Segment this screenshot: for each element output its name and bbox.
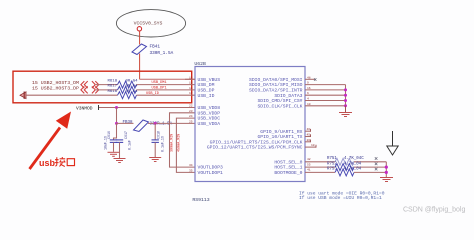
junction C618 tap [154, 122, 157, 125]
capacitor C617 [116, 131, 132, 158]
pin USB_VDDA [189, 120, 220, 127]
svg-text:24: 24 [189, 115, 193, 118]
svg-text:R618: R618 [108, 79, 118, 83]
svg-text:SDIO_CMD/SPI_CS#: SDIO_CMD/SPI_CS# [257, 98, 302, 104]
pin BOOTMODE_0 + wire [274, 169, 335, 176]
svg-text:USB_ID: USB_ID [146, 92, 159, 96]
off-page connector USB_ID left [20, 92, 26, 99]
pin USB_ID [189, 92, 215, 99]
pin SDIO_CLK + wire [257, 103, 345, 110]
wire ID row [26, 94, 118, 96]
wire ID to chip [137, 94, 196, 96]
pin VOUTLDOP1 [189, 169, 223, 176]
svg-text:4: 4 [307, 98, 309, 101]
svg-text:10: 10 [311, 144, 315, 147]
svg-text:SDIO_CLK/SPI_CLK: SDIO_CLK/SPI_CLK [257, 103, 302, 109]
svg-text:330R_1.5A: 330R_1.5A [150, 51, 174, 56]
annotation text usb接口 [39, 157, 75, 168]
resistor R751 [327, 157, 386, 165]
pin VOUTLDOP3 [189, 164, 223, 171]
svg-text:GPIO_9/UART1_RX: GPIO_9/UART1_RX [260, 129, 302, 135]
wire SDIO tie bus [345, 85, 347, 106]
svg-text:4.7K_04: 4.7K_04 [344, 162, 362, 166]
svg-text:If use USB mode =UIU R0=0,R1=1: If use USB mode =UIU R0=0,R1=1 [299, 195, 382, 201]
watermark [403, 207, 465, 214]
wire DM row [96, 84, 118, 86]
pin USB_DM [189, 82, 215, 89]
net label 300mA_MIN rotated [171, 134, 175, 152]
svg-text:35: 35 [189, 169, 193, 172]
ground SDIO [339, 113, 352, 117]
pin GPIO_10/UART1_TX [257, 134, 310, 141]
pin USB_VDDP [189, 110, 220, 117]
svg-text:25: 25 [189, 120, 193, 123]
wire SDIO to ground [345, 106, 347, 112]
pin HOST_SEL_1 + wire [274, 163, 335, 170]
wire FB41 to VBUS row [140, 54, 195, 80]
net label V3NMOD [76, 105, 99, 111]
wire LDO out 1 [176, 118, 195, 172]
svg-text:48: 48 [307, 76, 311, 79]
svg-text:SDIO_DATA0/SPI_MOSI: SDIO_DATA0/SPI_MOSI [249, 77, 303, 83]
svg-text:USB_VDDA: USB_VDDA [198, 121, 221, 127]
junction SDIO 1 [344, 88, 347, 91]
svg-text:10uF_16: 10uF_16 [104, 136, 108, 150]
svg-text:CSDN @flypig_bolg: CSDN @flypig_bolg [403, 207, 465, 214]
pin SDIO_CMD + wire [257, 98, 345, 105]
pin HOST_SEL_0 + wire [274, 158, 335, 165]
wire DP to chip [137, 89, 196, 91]
svg-text:55: 55 [307, 163, 311, 166]
net label USB_ID [146, 92, 159, 96]
junction FB38 row [115, 122, 118, 125]
svg-text:15 USB2_HOST3_DP: 15 USB2_HOST3_DP [32, 86, 79, 92]
svg-text:SDIO_DATA1/SPI_MISO: SDIO_DATA1/SPI_MISO [249, 82, 303, 88]
svg-text:VOUTLDOP1: VOUTLDOP1 [198, 170, 224, 176]
pin SDIO_DATA0 stub [249, 76, 316, 83]
pin USB_VDD8 [189, 105, 220, 112]
junction SDIO 2 [344, 94, 347, 97]
svg-text:USB_VBUS: USB_VBUS [198, 77, 221, 83]
svg-text:16: 16 [189, 76, 193, 79]
svg-text:VCC5V0_SYS: VCC5V0_SYS [134, 21, 163, 27]
svg-text:41: 41 [307, 169, 311, 172]
svg-text:USB_DP: USB_DP [198, 88, 215, 94]
ground C617 [114, 159, 126, 163]
svg-text:V3NMOD: V3NMOD [76, 105, 93, 111]
svg-text:GPIO_11/UART1_RTS/I2S_CLK/PCM_: GPIO_11/UART1_RTS/I2S_CLK/PCM_CLK [210, 139, 303, 145]
svg-text:USB_ID: USB_ID [198, 93, 215, 99]
svg-text:USB_VDDP: USB_VDDP [198, 110, 221, 116]
svg-text:USB_VDD8: USB_VDD8 [198, 105, 221, 111]
wire V3NMOD down to FB38 row [116, 108, 118, 124]
svg-text:SDIO_DATA2/SPI_INTR: SDIO_DATA2/SPI_INTR [249, 88, 303, 94]
svg-text:14: 14 [189, 87, 193, 90]
pin GPIO_11/UART1_RTS [210, 139, 311, 146]
svg-text:450mA_MIN: 450mA_MIN [177, 134, 181, 152]
resistor R616 [108, 90, 139, 99]
ground HOST [380, 178, 393, 182]
pin USB_DP [189, 87, 215, 94]
ground C618 [149, 158, 161, 162]
svg-text:300mA_MIN: 300mA_MIN [171, 134, 175, 152]
annotation red arrow [30, 112, 72, 170]
svg-text:45: 45 [307, 134, 311, 137]
wire V3NMOD to chip [99, 107, 195, 109]
IC U62B body [192, 61, 305, 203]
junction HOST 2 [385, 171, 388, 174]
note text [299, 190, 385, 201]
svg-text:USB_DP1: USB_DP1 [152, 87, 167, 91]
pin SDIO_DATA1 + wire [249, 82, 345, 89]
svg-text:6: 6 [307, 92, 309, 95]
svg-text:RS9113: RS9113 [192, 197, 209, 203]
svg-text:usb: usb [39, 158, 56, 168]
pin SDIO_DATA2 + wire [249, 87, 345, 94]
svg-text:BOOTMODE_0: BOOTMODE_0 [274, 170, 302, 176]
pin SDIO_DATA3 + wire [274, 92, 345, 99]
svg-text:R617: R617 [108, 85, 118, 89]
svg-text:GPIO_10/UART1_TX: GPIO_10/UART1_TX [257, 134, 302, 140]
svg-text:42: 42 [307, 158, 311, 161]
svg-text:R616: R616 [108, 90, 118, 94]
svg-text:C617: C617 [124, 131, 128, 139]
svg-text:23: 23 [189, 110, 193, 113]
resistor R752 [327, 162, 386, 170]
signal USB2_HOST3_DP [32, 86, 99, 94]
ferrite bead FB41 [132, 44, 174, 56]
capacitor C618 [152, 123, 165, 157]
svg-text:0.1uF_16: 0.1uF_16 [160, 136, 164, 152]
pin GPIO_9/UART1_RX [260, 128, 310, 135]
wire HOST tie bus [385, 162, 387, 177]
wire DM to chip [137, 84, 196, 86]
svg-text:46: 46 [307, 128, 311, 131]
svg-text:C616: C616 [107, 131, 111, 139]
net label 450mA_MIN rotated [177, 134, 181, 152]
pin USB_VBUS [185, 76, 220, 83]
svg-text:VOUTLDOP3: VOUTLDOP3 [198, 165, 224, 171]
svg-text:9: 9 [307, 82, 309, 85]
svg-text:4.7K_04C: 4.7K_04C [344, 157, 364, 161]
junction SDIO 3 [344, 99, 347, 102]
svg-text:34: 34 [189, 164, 193, 167]
svg-text:15: 15 [189, 82, 193, 85]
svg-text:16: 16 [307, 87, 311, 90]
wire FB38 row to chip [117, 122, 196, 124]
svg-text:22: 22 [189, 105, 193, 108]
annotation red box [13, 71, 192, 103]
svg-text:USB_VDDC: USB_VDDC [198, 116, 221, 122]
svg-text:4.7K_04: 4.7K_04 [344, 168, 362, 172]
net label USB_DP1 [152, 87, 167, 91]
svg-text:USB_DM1: USB_DM1 [152, 81, 167, 85]
svg-text:HOST_SEL_1: HOST_SEL_1 [274, 165, 302, 171]
wire caps bus [114, 123, 117, 139]
junction HOST 1 [385, 166, 388, 169]
svg-text:GPIO_12/UART1_CTS/I2S_WS/PCM_F: GPIO_12/UART1_CTS/I2S_WS/PCM_FSYNC [207, 145, 303, 151]
svg-text:0.1uF: 0.1uF [127, 140, 131, 150]
annotation black arrow [387, 131, 398, 155]
no-connect X marks [375, 157, 378, 170]
svg-text:SDIO_DATA3: SDIO_DATA3 [274, 93, 302, 99]
svg-text:26: 26 [307, 139, 311, 142]
svg-text:HOST_SEL_0: HOST_SEL_0 [274, 159, 302, 165]
net label USB_DM1 [152, 81, 167, 85]
svg-text:USB_DM: USB_DM [198, 82, 215, 88]
signal USB2_HOST3_DM [32, 80, 99, 88]
resistor R617 [108, 85, 139, 94]
pin GPIO_12/UART1_CTS [207, 144, 316, 151]
svg-text:15 USB2_HOST3_DM: 15 USB2_HOST3_DM [32, 80, 79, 86]
resistor R753 [327, 168, 386, 176]
ferrite bead FB38 [123, 120, 173, 132]
wire VCC to FB41 [139, 31, 141, 45]
junction V3NMOD [115, 106, 118, 109]
wire LDO out 3 [170, 113, 196, 167]
ground C616 [108, 152, 120, 156]
resistor R618 [108, 79, 139, 88]
svg-text:10: 10 [307, 103, 311, 106]
pin USB_VDDC [189, 115, 220, 122]
svg-text:17: 17 [189, 92, 193, 95]
svg-text:FB41: FB41 [150, 45, 161, 50]
capacitor C616 [104, 131, 118, 152]
power symbol VCC5V0_SYS [116, 10, 185, 37]
junction SDIO 4 [344, 104, 347, 107]
wire DP row [96, 89, 118, 91]
